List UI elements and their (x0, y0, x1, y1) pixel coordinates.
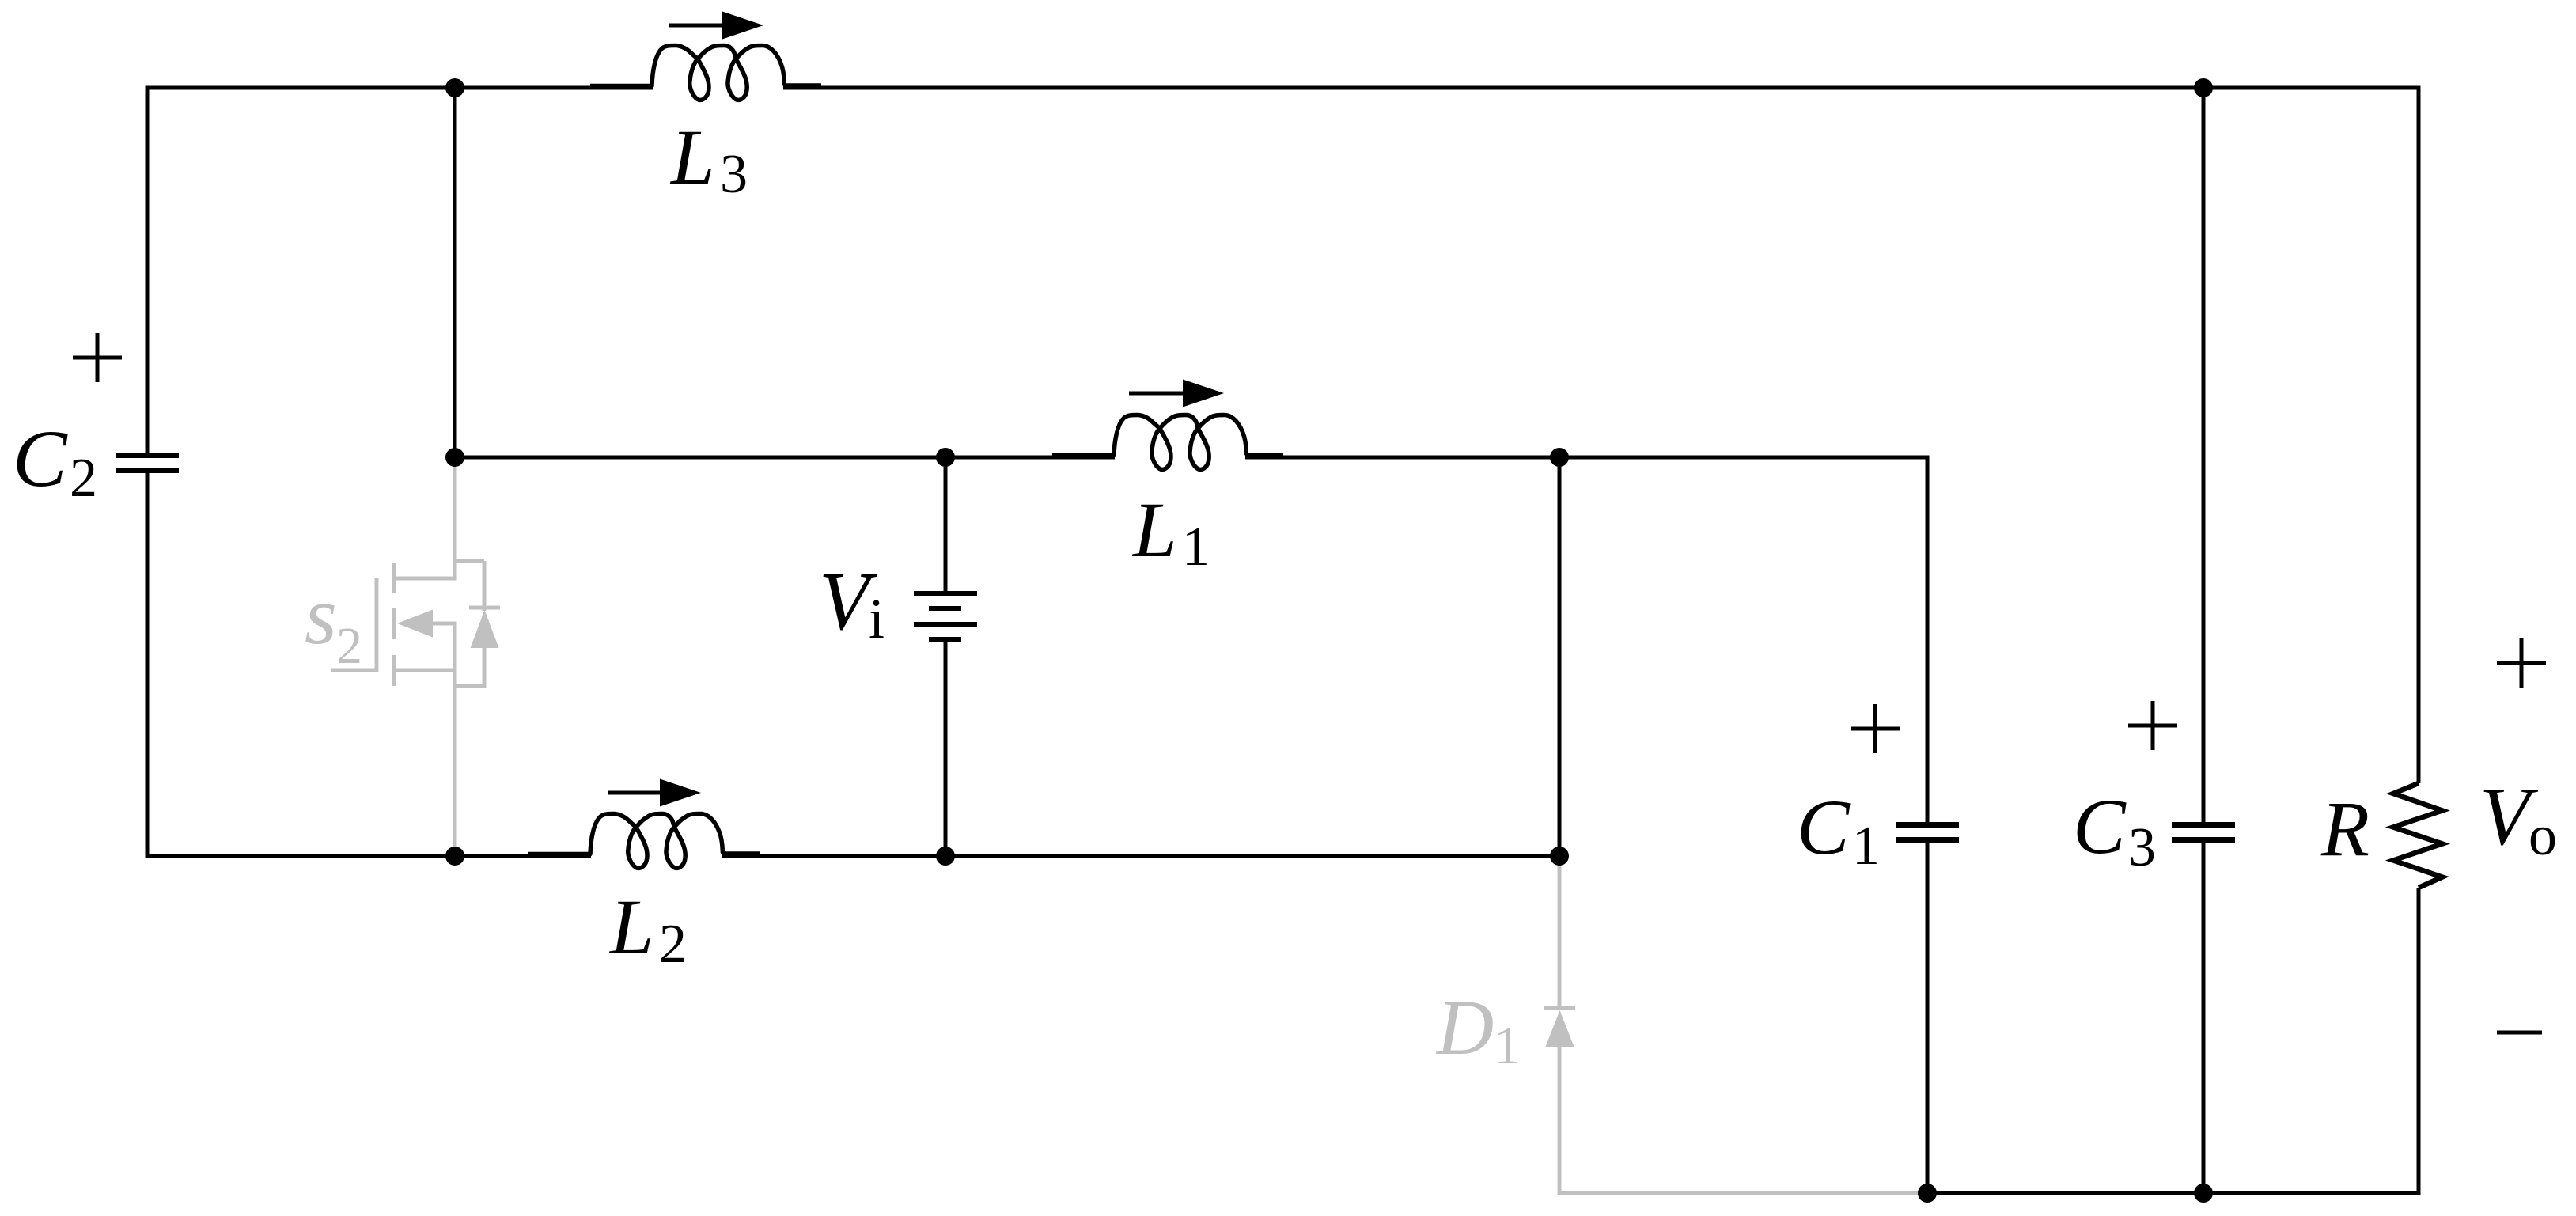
svg-text:L: L (669, 113, 715, 201)
svg-text:1: 1 (1852, 816, 1880, 877)
svg-text:D: D (1435, 983, 1494, 1071)
svg-text:s: s (305, 569, 337, 661)
wire: C3 branch above capacitor (2202, 88, 2206, 822)
diode D1 (gray) (1544, 856, 1927, 1195)
svg-text:i: i (869, 587, 885, 650)
node: bottom rail / C3 junction (2194, 1184, 2213, 1203)
svg-text:2: 2 (336, 617, 362, 675)
svg-text:o: o (2529, 804, 2557, 867)
svg-text:L: L (608, 883, 654, 971)
inductor L1 (1052, 415, 1283, 470)
minus sign of Vo (2497, 1031, 2542, 1035)
svg-text:3: 3 (720, 144, 748, 205)
capacitor C3 (2172, 822, 2235, 828)
svg-text:R: R (2320, 785, 2370, 873)
wire: vertical from top rail to middle rail at x=575 (453, 88, 457, 457)
svg-text:L: L (1131, 486, 1177, 574)
svg-text:1: 1 (1494, 1015, 1521, 1075)
node: L2 rail / D1 junction (1550, 847, 1569, 866)
wire: middle rail right of L1 (1245, 456, 1927, 460)
plus sign of C1 (1851, 727, 1900, 731)
battery Vi (914, 593, 977, 639)
capacitor C2 (116, 453, 179, 458)
wire: top rail right of L3 (783, 86, 2419, 90)
wire: R branch above resistor (2417, 86, 2421, 784)
current arrow above L2 (608, 791, 665, 795)
plus sign of C2 (73, 356, 122, 360)
wire: Vi branch above battery (944, 457, 948, 593)
node: middle rail / Vi top junction (936, 448, 955, 467)
capacitor C1 (1896, 822, 1959, 828)
node: middle rail / right column junction (1550, 448, 1569, 467)
plus sign of C3 (2128, 724, 2177, 728)
wire: R branch below resistor (2417, 888, 2421, 1195)
svg-text:2: 2 (70, 448, 97, 509)
node: top rail / s2 column junction (445, 78, 464, 97)
wire: C1 branch above capacitor (1926, 456, 1930, 823)
node: middle rail / s2 drain junction (445, 448, 464, 467)
svg-text:1: 1 (1182, 517, 1210, 578)
inductor L2 (528, 814, 760, 869)
wire: C3 branch below capacitor (2202, 843, 2206, 1193)
resistor R (2393, 783, 2442, 888)
plus sign of Vo (2497, 661, 2546, 665)
svg-text:3: 3 (2128, 817, 2156, 878)
wire: left vertical (above C2) (146, 86, 150, 453)
node: L2 rail / Vi bottom junction (936, 847, 955, 866)
wire: middle rail left of L1 (455, 456, 1115, 460)
wire: left vertical (below C2) (146, 473, 150, 858)
svg-text:C: C (13, 414, 68, 504)
node: bottom rail / C1-D1 junction (1918, 1184, 1937, 1203)
svg-text:C: C (2073, 782, 2127, 870)
svg-text:C: C (1797, 783, 1851, 871)
wire: bottom rail (black) (1927, 1191, 2421, 1195)
inductor L3 (590, 46, 821, 100)
current arrow above L1 (1129, 392, 1188, 396)
wire: top horizontal rail (147, 86, 653, 90)
svg-text:2: 2 (659, 914, 687, 975)
wire: L2 rail right of inductor (722, 854, 1559, 858)
wire: Vi branch below battery (944, 639, 948, 856)
wire: C1 branch below capacitor (1926, 843, 1930, 1193)
wire: L2 rail left of inductor (147, 854, 591, 858)
wire: vertical from middle rail to L2 rail at x=1971 (1558, 457, 1562, 856)
node: top rail / C3 junction (2194, 78, 2213, 97)
node: L2 rail / s2 source junction (445, 847, 464, 866)
current arrow above L3 (669, 24, 727, 28)
transistor s2 (MOSFET, gray) (331, 457, 500, 856)
